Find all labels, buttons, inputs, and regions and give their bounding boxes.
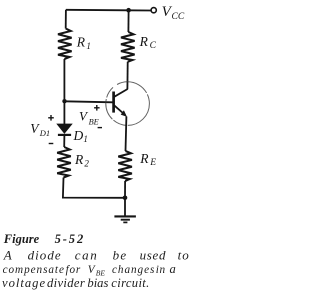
resistor R2 (57, 147, 71, 178)
diode D1 (57, 124, 72, 135)
label D1 (73, 128, 88, 144)
svg-text:changes: changes (112, 264, 155, 276)
wire RE bottom lead (124, 181, 126, 198)
svg-text:D: D (73, 128, 84, 143)
caption line 4 (2, 276, 150, 290)
svg-text:BE: BE (89, 117, 99, 126)
resistor RC (121, 32, 135, 62)
svg-text:circuit.: circuit. (111, 276, 149, 290)
resistor RE (118, 151, 132, 181)
svg-text:Figure: Figure (3, 232, 40, 246)
svg-text:V: V (88, 264, 96, 276)
svg-text:C: C (150, 41, 157, 51)
caption figure number (3, 232, 85, 246)
label VD1 (30, 121, 50, 138)
svg-text:R: R (139, 34, 149, 49)
caption line 2 (3, 248, 190, 263)
svg-text:5-52: 5-52 (55, 232, 86, 246)
plus sign VD1 (48, 115, 54, 121)
svg-text:R: R (139, 151, 149, 166)
wire RC top lead (127, 10, 129, 32)
svg-text:used: used (140, 248, 167, 263)
wire base (65, 101, 113, 102)
svg-text:divider: divider (47, 276, 85, 290)
transistor Q1 collector diagonal (114, 89, 127, 97)
svg-text:E: E (149, 158, 156, 168)
svg-text:2: 2 (84, 159, 89, 169)
label R1 (76, 34, 91, 51)
label VCC (162, 4, 185, 22)
caption line 3 (3, 262, 176, 278)
plus sign VBE (94, 105, 100, 111)
svg-text:be: be (113, 248, 128, 263)
wire emitter vertical (125, 117, 128, 152)
label RC (139, 34, 157, 51)
label R2 (74, 152, 89, 168)
transistor Q1 circle (106, 82, 150, 126)
wire left branch lower (63, 178, 125, 198)
svg-text:for: for (66, 264, 81, 276)
svg-text:R: R (74, 152, 84, 167)
wire top rail VCC (66, 9, 151, 12)
svg-text:1: 1 (83, 134, 88, 144)
svg-text:compensate: compensate (3, 264, 65, 276)
svg-text:to: to (178, 248, 190, 263)
ground (114, 216, 135, 222)
label VBE (79, 109, 99, 127)
node junction top (rail / RC branch) (126, 8, 131, 13)
terminal VCC circle (151, 8, 156, 13)
svg-text:in: in (156, 264, 166, 276)
wire left branch mid (63, 59, 65, 124)
wire diode to R2 (63, 135, 65, 147)
label RE (139, 151, 156, 168)
svg-text:CC: CC (172, 12, 185, 22)
svg-text:can: can (75, 248, 99, 263)
transistor Q1 base bar (112, 92, 115, 113)
wire ground stub (124, 198, 126, 216)
svg-text:D1: D1 (39, 128, 50, 138)
svg-text:voltage: voltage (2, 276, 46, 290)
svg-text:a: a (170, 262, 176, 276)
node junction base (left branch / base wire) (62, 99, 66, 103)
node junction bottom (emitter / ground) (123, 196, 128, 201)
transistor Q1 emitter diagonal with arrow (114, 106, 127, 117)
svg-text:1: 1 (86, 41, 91, 51)
resistor R1 (58, 29, 72, 60)
minus sign VBE (98, 127, 102, 129)
svg-text:R: R (76, 34, 86, 49)
minus sign VD1 (49, 143, 54, 145)
svg-text:A: A (3, 248, 12, 263)
wire left branch upper (65, 10, 67, 29)
svg-text:diode: diode (28, 248, 62, 263)
wire collector vertical (126, 62, 128, 90)
svg-text:bias: bias (87, 276, 108, 290)
